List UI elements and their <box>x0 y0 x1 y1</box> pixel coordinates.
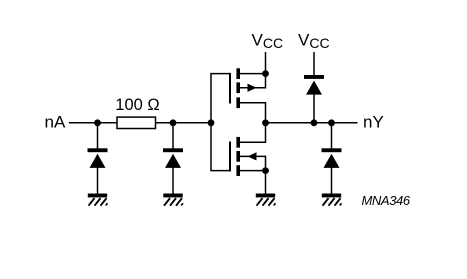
node NMOS source junction <box>262 167 269 174</box>
svg-text:nA: nA <box>45 113 66 132</box>
wire J5 to diode D4 <box>331 123 333 149</box>
svg-text:nY: nY <box>363 113 384 132</box>
transistor Q1 PMOS source wire <box>240 73 266 75</box>
wire D4 to ground <box>331 168 333 195</box>
diode D4 (output clamp to GND) <box>322 148 342 168</box>
svg-text:VCC: VCC <box>298 31 330 52</box>
wire nA to resistor <box>69 122 117 124</box>
wire NMOS source to ground <box>265 171 267 194</box>
node J3 (gate feed junction) <box>208 119 215 126</box>
wire D3 to output <box>313 94 315 123</box>
transistor Q2 NMOS source wire <box>240 170 266 172</box>
diode D2 (input clamp to GND) <box>163 148 183 168</box>
wire J1 to diode D1 <box>97 123 99 149</box>
ground GND1 <box>88 194 108 206</box>
ground GND3 <box>256 194 276 206</box>
transistor Q1 PMOS bulk wire with arrow <box>240 74 266 92</box>
svg-text:100 Ω: 100 Ω <box>115 96 159 114</box>
diode D1 (input clamp to GND) <box>88 148 108 168</box>
wire VCC1 down to PMOS source <box>265 52 267 74</box>
transistor Q1 PMOS channel segments <box>236 68 240 108</box>
wire output to nY <box>266 122 358 124</box>
svg-text:MNA346: MNA346 <box>362 193 411 208</box>
node PMOS source junction <box>262 70 269 77</box>
wire D2 to ground <box>172 168 174 195</box>
wire VCC2 down to diode D3 <box>313 52 315 76</box>
wire D1 to ground <box>97 168 99 195</box>
diode D3 (output clamp to VCC) <box>304 75 324 95</box>
node output junction <box>262 119 269 126</box>
resistor 100 Ω <box>117 117 156 128</box>
wire resistor to gate node <box>156 122 212 124</box>
transistor Q1 PMOS gate plate <box>229 73 231 104</box>
wire gate feed (to both gates) <box>211 74 230 171</box>
node J5 (D4 junction) <box>328 119 335 126</box>
transistor Q2 NMOS channel segments <box>236 137 240 176</box>
node J2 (second clamp junction) <box>170 119 177 126</box>
ground GND2 <box>163 194 183 206</box>
transistor Q2 NMOS drain wire <box>240 123 266 143</box>
transistor Q2 NMOS bulk wire with arrow <box>240 152 266 170</box>
ground GND4 <box>322 194 342 206</box>
wire J2 to diode D2 <box>172 123 174 149</box>
node J1 (input clamp junction) <box>94 119 101 126</box>
transistor Q2 NMOS gate plate <box>229 142 231 172</box>
transistor Q1 PMOS drain wire <box>240 103 266 123</box>
svg-text:VCC: VCC <box>252 31 284 52</box>
node J4 (D3 junction) <box>311 119 318 126</box>
